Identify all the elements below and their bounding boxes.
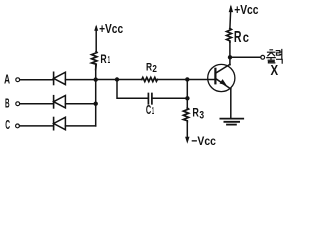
svg-text:−Vcc: −Vcc [191,134,216,148]
wire B input to diode D2 [20,103,54,105]
svg-text:3: 3 [199,109,204,121]
C1 branch left vertical [117,80,148,99]
wire base node to base [187,79,215,81]
svg-text:c: c [243,29,249,45]
resistor R1 (vertical zigzag) [92,52,97,70]
transistor emitter diagonal with arrow [215,78,230,89]
svg-text:X: X [271,62,279,79]
wire Rc to collector [229,42,231,65]
transistor collector diagonal [215,64,230,73]
svg-text:1: 1 [108,54,111,66]
svg-text:2: 2 [152,64,157,75]
node dot base/R3 [185,77,189,81]
wire D2 to node [66,103,96,105]
svg-text:C: C [5,118,10,132]
wire C input to diode D3 [20,125,54,127]
svg-text:B: B [5,95,10,110]
collector node dot [228,55,232,59]
hangul CHUL [267,50,275,63]
+Vcc arrow (left) [95,27,97,52]
wire base node down to R3 [186,80,188,109]
diode D1 cathode bar [53,72,55,84]
hangul RYEOK [276,50,282,64]
node dot B-row [94,102,98,106]
output wire [230,56,261,58]
resistor R3 (vertical zigzag) [183,108,188,122]
svg-text:+Vcc: +Vcc [99,22,123,36]
input terminal B [16,102,20,106]
svg-text:R: R [192,106,199,120]
input terminal A [16,78,20,82]
wire R2 to base node [157,79,187,81]
diode D3 cathode bar [53,118,55,130]
wire D1 to node [66,79,96,81]
common anode vertical wire [95,64,97,126]
resistor Rc (vertical zigzag) [227,29,232,43]
wire C1 to R3 node [152,97,187,99]
capacitor C1 right plate [151,94,153,104]
svg-text:C: C [146,102,151,117]
node dot R2/C1 branch [115,77,119,81]
input terminal C [16,124,20,128]
diode D2 triangle [54,96,66,108]
output terminal circle [261,55,265,59]
+Vcc arrow (right) [229,7,232,29]
svg-text:R: R [234,29,242,46]
wire A input to diode D1 [20,79,54,81]
ground symbol [220,118,243,120]
transistor Q1 circle [208,64,235,91]
transistor Q1 base bar [214,69,216,84]
diode D1 triangle [54,72,66,84]
diode D2 cathode bar [53,96,55,108]
diode D3 triangle [54,117,66,129]
wire node to R2 [96,79,142,81]
node dot C1/R3 [185,96,189,100]
emitter wire down [230,89,232,119]
svg-text:+Vcc: +Vcc [234,3,258,17]
svg-text:A: A [4,71,10,86]
output label 출력 (drawn glyphs) [267,50,282,64]
node dot A-row [94,77,98,81]
resistor R2 (horizontal zigzag) [142,77,158,81]
wire D3 to common vertical [66,125,96,127]
capacitor C1 left plate [147,94,149,104]
svg-text:1: 1 [152,106,154,117]
wire R3 to -Vcc arrow [186,122,188,140]
svg-text:R: R [100,52,107,66]
